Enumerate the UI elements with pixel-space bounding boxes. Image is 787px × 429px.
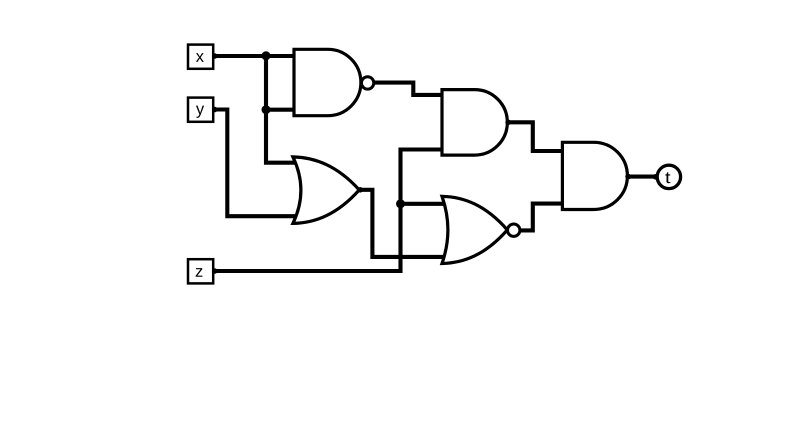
wire x: input x to NAND top input (214, 54, 294, 58)
NAND gate U1 bubble (361, 77, 373, 89)
label t (665, 172, 670, 183)
label x (196, 53, 204, 62)
wire y: input y down and right to OR bottom input (214, 110, 298, 217)
wire x branch: down to OR top input (266, 110, 298, 163)
junction dot on x net (NAND bottom input) (262, 105, 271, 114)
NOR gate U4 bubble (508, 224, 520, 236)
junction dot on x net (top) (262, 51, 271, 60)
wire n2: OR output down to NOR bottom input (359, 190, 445, 257)
output terminal t (657, 165, 680, 188)
wire z: input z right, up to AND U2 bottom input (214, 150, 442, 272)
input box z (188, 259, 213, 283)
label y (196, 106, 204, 118)
terminal dot at OR gate output (357, 187, 363, 193)
wire x branch: junction down to NAND bottom input (266, 56, 294, 110)
terminal dot at x box output (212, 53, 218, 59)
NOR gate U4 body (442, 196, 507, 263)
terminal dot at t circle input (653, 174, 659, 180)
wire n1: NAND output to AND U2 top input (375, 83, 443, 95)
terminal dot at AND U2 output (505, 120, 511, 126)
wire n4: NOR output up to AND U5 bottom input (520, 204, 562, 231)
AND gate U2 body (442, 90, 507, 156)
input box y (188, 98, 213, 122)
terminal dot at AND U5 output (625, 174, 631, 180)
junction dot on z net (NOR top input) (396, 199, 405, 208)
wire z branch: junction to NOR top input (401, 202, 448, 206)
input box x (188, 45, 213, 69)
wire n3: AND U2 output to AND U5 top input (507, 122, 562, 151)
AND gate U5 body (562, 142, 627, 209)
terminal dot at y box output (212, 107, 218, 113)
label z (196, 268, 203, 277)
NAND gate U1 body (294, 49, 361, 115)
wire t: AND U5 output to terminal t (627, 175, 656, 179)
OR gate U3 body (293, 157, 359, 224)
terminal dot at z box output (212, 268, 218, 274)
